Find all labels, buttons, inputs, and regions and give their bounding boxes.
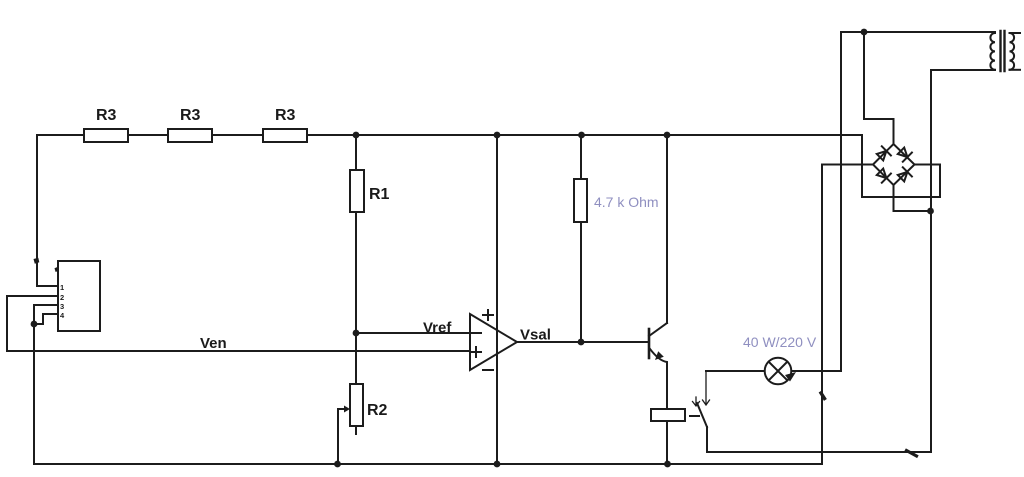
wire collector vertical	[666, 135, 668, 323]
wire Ven horizontal	[7, 350, 470, 352]
diode D1 top-left	[877, 146, 891, 160]
svg-text:R3: R3	[275, 107, 296, 124]
wire bridge top feed	[864, 32, 894, 144]
diode D4 bottom-right	[898, 167, 912, 181]
diode D2 top-right	[898, 148, 912, 162]
label R3 b	[180, 107, 201, 124]
label 40 W/220 V	[743, 334, 817, 350]
tick on right drop wire	[821, 393, 825, 399]
lamp arrow	[785, 372, 796, 382]
wire Vref horizontal	[356, 332, 470, 334]
label R2	[367, 402, 388, 419]
tick on left drop wire	[34, 258, 40, 264]
node top rail R1 junction	[353, 132, 360, 139]
svg-text:3: 3	[60, 302, 64, 311]
wire bottom rail	[34, 463, 822, 465]
label R3 c	[275, 107, 296, 124]
node bridge bottom junction	[927, 208, 934, 215]
node 4.7k top junction	[578, 132, 585, 139]
switch blade	[697, 403, 707, 427]
resistor 4.7 k Ohm	[574, 179, 587, 222]
wire Vsal output	[517, 341, 649, 343]
node secondary top junction	[861, 29, 868, 36]
R2 wiper arrow	[338, 406, 350, 413]
wire transformer right bottom lead	[1010, 69, 1021, 71]
transformer T1 core	[1001, 31, 1005, 71]
wire transformer right top lead	[1010, 32, 1021, 34]
node collector top junction	[664, 132, 671, 139]
node supply bottom junction	[494, 461, 501, 468]
svg-text:2: 2	[60, 293, 64, 302]
wire switch to right vertical	[707, 427, 931, 452]
wire relay to bottom rail	[666, 421, 668, 464]
wire R2 wiper drop	[337, 409, 339, 464]
wire 4.7k vertical	[580, 135, 582, 342]
pin 3 label	[60, 302, 64, 311]
wire pin3	[34, 305, 58, 324]
svg-text:R1: R1	[369, 186, 390, 203]
svg-text:Vsal: Vsal	[520, 327, 551, 344]
transistor Q1 emitter lead	[650, 349, 667, 409]
label Vref	[423, 320, 452, 337]
wire transformer secondary top	[841, 31, 995, 33]
transistor Q1 base bar	[648, 329, 651, 358]
node pin3/pin4 junction	[31, 321, 38, 328]
op-amp supply wire vertical	[496, 135, 498, 464]
wire pin2 to Ven	[7, 296, 58, 351]
diode D3 bottom-left	[877, 169, 891, 183]
op-amp plus input sign	[471, 347, 481, 357]
connector U2 box	[58, 261, 100, 331]
wire bridge bottom out	[894, 185, 931, 211]
label R1	[369, 186, 390, 203]
lamp 40W	[765, 358, 792, 385]
wire lamp right riser	[792, 32, 842, 371]
wire pin4	[34, 314, 58, 324]
label R3 a	[96, 107, 117, 124]
wire top rail	[37, 134, 862, 136]
node Vsal 4.7k junction	[578, 339, 585, 346]
svg-text:Vref: Vref	[423, 320, 452, 337]
wire right vertical transformer bottom	[931, 70, 995, 452]
svg-text:1: 1	[60, 283, 64, 292]
label 4.7 k Ohm	[594, 194, 659, 210]
op-amp minus supply sign	[483, 369, 493, 371]
transistor Q1 collector lead	[649, 323, 667, 336]
wire top rail to bridge right	[862, 135, 940, 197]
potentiometer R2	[350, 384, 363, 426]
resistor R1	[350, 170, 364, 212]
svg-text:40 W/220 V: 40 W/220 V	[743, 334, 817, 350]
wire left drop to pin1	[37, 135, 58, 286]
op-amp minus input sign	[472, 332, 481, 334]
relay coil K1	[651, 409, 685, 421]
node relay bottom junction	[664, 461, 671, 468]
svg-text:R3: R3	[180, 107, 201, 124]
node supply top junction	[494, 132, 501, 139]
pin 2 label	[60, 293, 64, 302]
svg-text:R3: R3	[96, 107, 117, 124]
transformer T1 secondary coil	[1010, 33, 1015, 70]
svg-text:R2: R2	[367, 402, 388, 419]
tick at connector top-left	[55, 267, 60, 272]
transistor Q1 emitter arrow	[655, 351, 664, 360]
wire left bottom drop	[33, 324, 35, 464]
node Vref junction	[353, 330, 360, 337]
tick on switch bottom wire	[907, 451, 917, 457]
label Ven	[200, 335, 227, 352]
resistor R3 c	[263, 129, 307, 142]
relay actuation arrow	[693, 397, 700, 406]
relay actuation dash	[690, 415, 699, 417]
wire lamp left	[706, 370, 765, 372]
resistor R3 b	[168, 129, 212, 142]
label Vsal	[520, 327, 551, 344]
bridge rectifier edges	[873, 144, 915, 185]
resistor R3 a	[84, 129, 128, 142]
pin 4 label	[60, 311, 65, 320]
node wiper bottom junction	[334, 461, 341, 468]
op-amp plus supply sign	[483, 310, 493, 320]
svg-text:Ven: Ven	[200, 335, 227, 352]
op-amp U1	[470, 314, 517, 370]
transformer T1 primary coil	[990, 33, 995, 70]
wire bridge left to bottom rail	[822, 165, 873, 465]
wire R1-R2 vertical	[355, 135, 357, 434]
svg-text:4.7 k Ohm: 4.7 k Ohm	[594, 194, 659, 210]
pin 1 label	[60, 283, 64, 292]
switch contact arrow	[703, 371, 710, 405]
